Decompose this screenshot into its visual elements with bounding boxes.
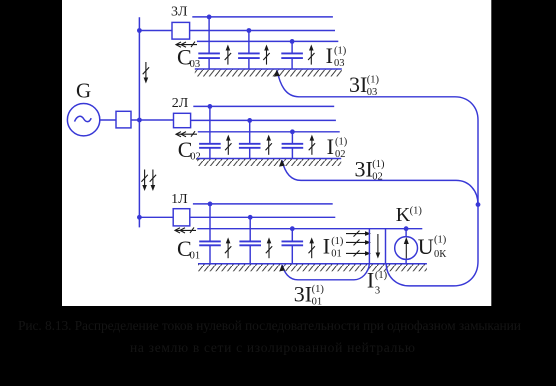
- wire 2Л phase C line: [198, 131, 340, 133]
- svg-text:(1): (1): [372, 159, 385, 170]
- arrowhead of 3I02 arc at ground bar: [279, 160, 285, 167]
- current arrow 1Л ic1 (up, slashed): [225, 237, 231, 258]
- svg-text:0К: 0К: [434, 249, 447, 260]
- return arc 3I02: [282, 160, 478, 204]
- svg-text:(1): (1): [335, 136, 348, 147]
- breaker Q1 (1Л breaker): [173, 209, 190, 226]
- capacitor C01c: [282, 229, 304, 264]
- node 3Л cap1 tap: [207, 15, 212, 20]
- svg-text:03: 03: [334, 58, 345, 69]
- current arrow fault current c (right): [346, 250, 371, 256]
- svg-text:(1): (1): [312, 284, 325, 295]
- wire 1Л phase C line (to fault): [197, 228, 422, 230]
- label current 3I02: [355, 157, 386, 183]
- svg-text:G: G: [76, 79, 91, 103]
- current arrow 2Л ic3 (up, slashed): [309, 135, 315, 155]
- node fault point K: [404, 226, 409, 231]
- power-direction arrow 1Л (left, double head): [175, 227, 196, 233]
- current arrow 1Л ic2 (up, slashed): [266, 237, 272, 258]
- label current 3I01: [294, 281, 325, 307]
- current arrow 3Л ic2 (up, slashed): [263, 45, 269, 65]
- node 1Л cap2 tap: [248, 215, 253, 220]
- node 2Л cap3 tap: [290, 129, 295, 134]
- node 3Л cap3 tap: [290, 39, 295, 44]
- svg-text:3I: 3I: [349, 72, 367, 97]
- node bus-3Л junction: [137, 28, 142, 33]
- label current I02: [327, 134, 348, 160]
- current arrow 2Л ic1 (up, slashed): [225, 135, 231, 155]
- current arrow 3Л ic3 (up, slashed): [308, 45, 314, 65]
- breaker QG (generator breaker): [116, 111, 131, 128]
- capacitor C01b: [239, 217, 261, 263]
- current arrow 2Л ic2 (up, slashed): [266, 135, 272, 155]
- svg-text:02: 02: [335, 149, 346, 160]
- ground bar 2Л earth: [197, 159, 341, 167]
- svg-text:1Л: 1Л: [171, 192, 188, 207]
- svg-text:02: 02: [372, 172, 383, 183]
- wire fault channel left: [368, 229, 370, 264]
- svg-text:01: 01: [190, 250, 201, 261]
- svg-text:2Л: 2Л: [172, 96, 189, 111]
- svg-text:01: 01: [331, 248, 342, 259]
- arrowhead of 3I03 arc at ground bar: [274, 70, 280, 77]
- svg-text:(1): (1): [334, 45, 347, 56]
- wire bus to 1Л breaker: [139, 216, 173, 218]
- voltage source U0K: [395, 229, 418, 264]
- current arrow 1Л ic3 (up, slashed): [309, 237, 315, 258]
- node bus-G junction: [137, 118, 142, 123]
- label current I03: [326, 43, 347, 69]
- wire 2Л phase A line: [193, 105, 334, 107]
- wire fault channel right: [385, 229, 387, 264]
- svg-text:(1): (1): [367, 75, 380, 86]
- capacitor C02a: [199, 106, 221, 158]
- capacitor C03b: [238, 31, 260, 70]
- arrow inside U0K (up): [404, 237, 409, 259]
- svg-text:3I: 3I: [294, 281, 312, 306]
- svg-text:I: I: [323, 233, 330, 258]
- node 2Л cap2 tap: [247, 118, 252, 123]
- arrowhead of 3I01 arc at ground bar: [279, 264, 285, 271]
- svg-text:на землю в сети с изолированно: на землю в сети с изолированной нейтраль…: [130, 340, 415, 355]
- wire 1Л phase A line: [193, 203, 333, 205]
- svg-text:(1): (1): [375, 270, 388, 281]
- ground bar 3Л earth: [195, 69, 342, 77]
- svg-text:01: 01: [312, 296, 323, 307]
- svg-text:3: 3: [375, 285, 380, 296]
- node loop junction: [476, 202, 481, 207]
- svg-text:U: U: [418, 234, 434, 259]
- wire 2Л phase B line: [191, 119, 336, 121]
- label current 3I03: [349, 72, 380, 98]
- current arrow I3 down arrow (down): [376, 234, 381, 259]
- node 1Л cap1 tap: [208, 202, 213, 207]
- breaker Q3 (3Л breaker): [172, 22, 190, 39]
- svg-text:Рис. 8.13. Распределение токов: Рис. 8.13. Распределение токов нулевой п…: [18, 318, 521, 333]
- node 3Л cap2 tap: [247, 28, 252, 33]
- capacitor C02b: [239, 120, 261, 158]
- return arc 3I01: [282, 264, 369, 280]
- node bus-1Л junction: [137, 215, 142, 220]
- svg-text:3I: 3I: [355, 157, 373, 182]
- current arrow fault current b (right): [346, 239, 371, 245]
- svg-text:I: I: [327, 134, 334, 159]
- capacitor C03c: [281, 41, 303, 69]
- busbar (vertical): [138, 17, 140, 227]
- label voltage U0K: [418, 234, 447, 260]
- svg-text:(1): (1): [410, 206, 423, 217]
- wire bus to 3Л breaker: [139, 30, 172, 32]
- current arrow fault current a (right): [346, 231, 371, 237]
- current arrow bus current above G (down, slashed): [143, 62, 149, 84]
- capacitor C01a: [199, 204, 221, 264]
- breaker Q2 (2Л breaker): [174, 113, 191, 127]
- current arrow bus current to 1L (a) (down, slashed): [141, 170, 147, 192]
- wire 3Л phase A line: [192, 16, 333, 18]
- wire 1Л phase B line: [190, 216, 335, 218]
- ground bar 1Л earth: [198, 264, 427, 272]
- capacitor C02c: [282, 132, 304, 159]
- svg-text:3Л: 3Л: [171, 5, 188, 20]
- wire breaker to bus to 2L breaker: [131, 119, 174, 121]
- power-direction arrow 2Л (left, double head): [176, 131, 197, 137]
- svg-text:(1): (1): [331, 236, 344, 247]
- power-direction arrow 3Л (left, double head): [176, 42, 197, 48]
- current arrow 3Л ic1 (up, slashed): [225, 45, 231, 65]
- label current I01: [323, 233, 344, 259]
- generator G: [67, 104, 99, 136]
- svg-text:K: K: [396, 204, 411, 226]
- node 2Л cap1 tap: [208, 104, 213, 109]
- wire G to breaker: [100, 119, 116, 121]
- node 1Л cap3 tap: [290, 226, 295, 231]
- wire 3Л phase B line: [190, 30, 335, 32]
- svg-text:03: 03: [367, 87, 378, 98]
- wire 3Л phase C line: [197, 40, 338, 42]
- return loop 3I03 + main right loop to fault ground: [277, 71, 478, 286]
- current arrow bus current to 1L (b) (down, slashed): [150, 170, 156, 192]
- svg-text:I: I: [326, 43, 333, 68]
- svg-text:(1): (1): [434, 235, 447, 246]
- label current I3: [367, 267, 388, 296]
- capacitor C03a: [198, 17, 220, 69]
